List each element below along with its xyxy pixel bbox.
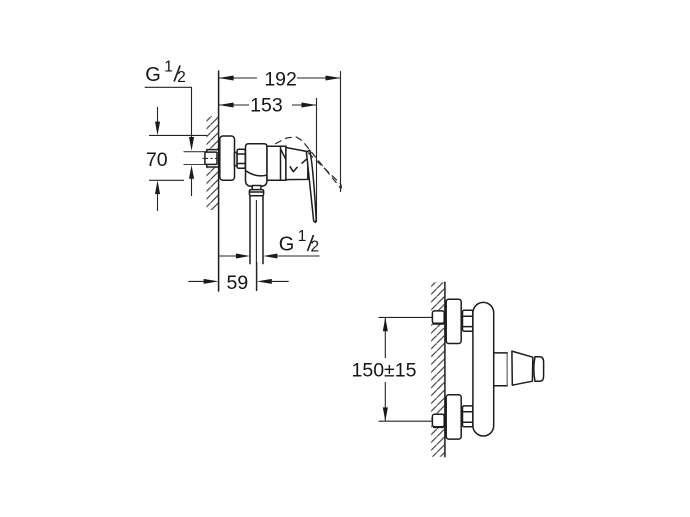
shower outlet collar (side view) bbox=[249, 186, 263, 196]
dimension 59 bbox=[188, 262, 288, 294]
upper union nut (front view) bbox=[463, 310, 473, 331]
dimension 150 +/- 15 bbox=[352, 317, 433, 421]
lever handle raised, dashed phantom bbox=[275, 137, 341, 189]
upper escutcheon flange (front view) bbox=[446, 299, 461, 343]
svg-text:1: 1 bbox=[164, 59, 173, 76]
wall escutcheon flange (side view) bbox=[220, 136, 235, 180]
dimension 70 bbox=[146, 107, 207, 211]
label G 1/2 (outlet thread) bbox=[279, 228, 319, 256]
svg-text:G: G bbox=[279, 234, 295, 256]
label G 1/2 (top left, supply thread) bbox=[145, 59, 185, 87]
union neck between flange and nut bbox=[235, 153, 238, 166]
svg-text:2: 2 bbox=[177, 69, 186, 86]
lever handle, down position (side view) bbox=[306, 150, 316, 222]
wall section line (front view) bbox=[444, 282, 446, 456]
wall hatching (front view) bbox=[431, 282, 444, 456]
arrows for outlet G 1/2 bbox=[219, 254, 320, 259]
supply pipe behind wall (side view) bbox=[184, 152, 208, 165]
leader line for top G 1/2 bbox=[145, 87, 194, 151]
cartridge ring (front view) bbox=[494, 353, 508, 386]
wall section line (side view) bbox=[218, 71, 220, 291]
mixer body (side view) bbox=[246, 144, 268, 186]
supply hex nut behind wall bbox=[203, 150, 225, 167]
svg-text:153: 153 bbox=[250, 94, 283, 116]
upper supply square nut (front view) bbox=[432, 311, 444, 324]
svg-text:150±15: 150±15 bbox=[352, 360, 417, 382]
handle dome cap (side view) bbox=[286, 148, 308, 180]
union nut (side view) bbox=[237, 149, 245, 168]
mixer body capsule (front view) bbox=[473, 302, 494, 436]
svg-text:70: 70 bbox=[146, 149, 168, 171]
lower escutcheon flange (front view) bbox=[446, 395, 461, 439]
handle end knob (front view) bbox=[534, 357, 544, 382]
extension line for 153 (lever tip) bbox=[316, 98, 318, 222]
svg-text:2: 2 bbox=[311, 239, 320, 256]
handle cone (front view) bbox=[512, 351, 533, 385]
outlet centre / extension line for 59 bbox=[255, 200, 257, 291]
extension line for 192 (raised lever tip) bbox=[340, 71, 342, 192]
shower outlet pipe (side view) bbox=[250, 196, 263, 264]
svg-text:192: 192 bbox=[264, 68, 297, 90]
dimension 192 bbox=[219, 68, 341, 90]
lower union nut (front view) bbox=[463, 406, 473, 427]
lower supply square nut (front view) bbox=[432, 414, 444, 427]
wall hatching (side view) bbox=[207, 116, 219, 210]
svg-text:1: 1 bbox=[298, 228, 307, 245]
lower arrow of top G 1/2 (points up at pipe bottom) bbox=[189, 165, 194, 196]
svg-text:G: G bbox=[145, 64, 161, 86]
dimension 153 bbox=[219, 94, 317, 116]
cartridge section (side view) bbox=[267, 146, 287, 180]
svg-text:59: 59 bbox=[227, 272, 249, 294]
